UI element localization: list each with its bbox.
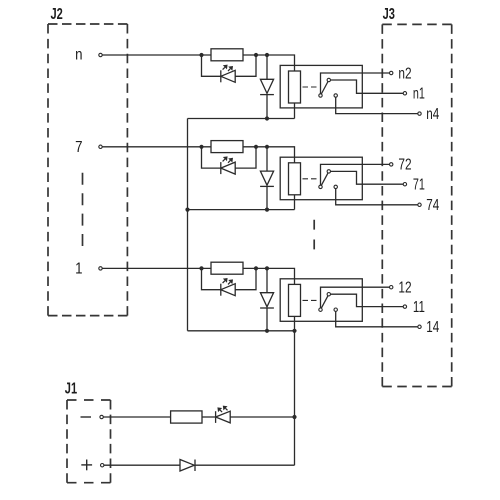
svg-text:J3: J3 [383, 6, 396, 23]
svg-text:n: n [75, 46, 82, 63]
svg-text:n4: n4 [426, 106, 439, 123]
svg-text:7: 7 [75, 139, 82, 156]
svg-text:J2: J2 [51, 6, 64, 23]
svg-text:71: 71 [413, 177, 425, 194]
svg-text:14: 14 [426, 319, 439, 336]
svg-text:72: 72 [398, 157, 411, 174]
svg-text:n1: n1 [413, 86, 425, 103]
svg-text:1: 1 [75, 261, 82, 278]
svg-text:n2: n2 [398, 65, 411, 82]
svg-text:J1: J1 [65, 381, 78, 398]
svg-text:12: 12 [398, 280, 411, 297]
svg-text:74: 74 [426, 197, 439, 214]
svg-text:11: 11 [413, 299, 425, 316]
